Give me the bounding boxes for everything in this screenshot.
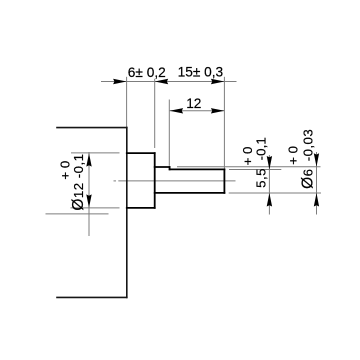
shaft flat step: [169, 167, 171, 169]
arrow 5,5 top down: [267, 156, 272, 170]
centerline shaft axis short dash: [114, 180, 117, 182]
arrow 5,5 bottom up: [267, 193, 272, 207]
dimension line 12: [170, 110, 225, 112]
svg-text:6± 0,2: 6± 0,2: [128, 65, 166, 80]
svg-text:-0,03: -0,03: [301, 129, 316, 162]
svg-text:-0,1: -0,1: [254, 137, 269, 160]
boss top edge: [127, 152, 155, 154]
dimension line top (6 and 15): [101, 81, 237, 83]
svg-text:+ 0: + 0: [58, 161, 73, 180]
shaft top edge full diameter: [155, 166, 170, 168]
body top edge: [57, 127, 127, 129]
arrow dia6 bottom up: [314, 193, 319, 207]
shaft flat top edge: [170, 168, 225, 170]
shaft end edge: [223, 169, 225, 193]
arrow dia6 top down: [314, 153, 319, 167]
centerline shaft axis long dash: [118, 180, 235, 182]
extension line dia6 top: [177, 166, 321, 168]
extension line shaft bottom right: [229, 192, 321, 194]
arrow dia12 down: [86, 194, 91, 208]
dimension line dia6 vertical: [316, 152, 318, 215]
extension line flat top right: [229, 169, 281, 171]
arrow 15 right inside: [211, 79, 225, 84]
centerline body axis: [46, 213, 109, 215]
dimension line dia12 vertical: [88, 152, 90, 236]
body right edge: [126, 128, 128, 298]
arrow 12 right: [211, 108, 225, 113]
extension line dia12 top: [71, 152, 120, 154]
extension line C shaft end: [223, 77, 225, 169]
svg-text:+ 0: + 0: [240, 147, 255, 166]
extension line A body right edge: [126, 77, 128, 128]
arrow dia12 up: [86, 153, 91, 167]
arrow 15 left inside: [155, 79, 169, 84]
boss bottom edge: [127, 207, 155, 209]
svg-text:12: 12: [186, 96, 201, 111]
arrow 12 left: [170, 108, 184, 113]
svg-text:+ 0: + 0: [285, 146, 300, 165]
dimension line 5,5 vertical: [268, 155, 270, 215]
boss right edge: [154, 153, 156, 208]
shaft bottom edge: [155, 192, 225, 194]
svg-text:15± 0,3: 15± 0,3: [178, 65, 224, 80]
svg-text:Ø6: Ø6: [300, 169, 317, 189]
extension line dia12 bottom: [71, 207, 120, 209]
arrow 6 left outside: [113, 79, 127, 84]
body bottom edge: [57, 296, 127, 298]
svg-text:5,5: 5,5: [254, 168, 269, 188]
extension line B boss right edge: [154, 79, 156, 148]
extension line flat start: [168, 100, 170, 166]
